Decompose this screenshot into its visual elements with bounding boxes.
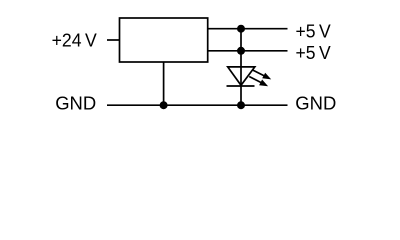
svg-text:+5 V: +5 V xyxy=(296,20,332,41)
svg-text:+24 V: +24 V xyxy=(52,29,98,50)
junction lower +5 V rail xyxy=(237,47,245,55)
LED D1 xyxy=(227,67,255,86)
wire +24 V input to box xyxy=(107,39,120,41)
svg-text:GND: GND xyxy=(295,93,336,114)
wire box output upper +5 V xyxy=(208,28,288,30)
ground bus wire xyxy=(107,104,288,106)
wire box bottom to ground bus xyxy=(163,62,165,105)
wire box output lower +5 V xyxy=(208,50,288,52)
junction LED ground xyxy=(237,101,245,109)
junction box ground xyxy=(160,101,168,109)
junction upper +5 V rail xyxy=(237,25,245,33)
LED emission arrow 2 xyxy=(249,77,268,87)
svg-text:GND: GND xyxy=(55,93,96,114)
LED emission arrow 1 xyxy=(252,70,271,80)
svg-text:+5 V: +5 V xyxy=(296,42,332,63)
wire LED branch vertical xyxy=(240,29,242,106)
power supply box U1 xyxy=(120,18,208,62)
